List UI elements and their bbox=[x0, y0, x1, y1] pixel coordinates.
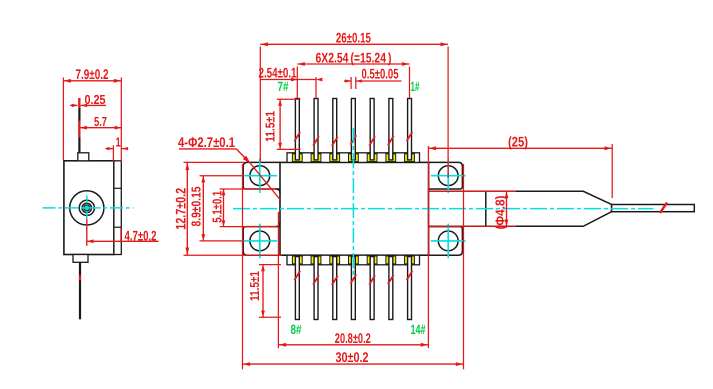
package body (top view) bbox=[280, 162, 429, 255]
top strip gold pad 2 bbox=[311, 154, 321, 162]
fillet at left edge lower bbox=[276, 223, 280, 227]
top pin #4 bbox=[351, 99, 355, 160]
svg-text:6X2.54 (=15.24 ): 6X2.54 (=15.24 ) bbox=[316, 49, 392, 65]
bottom strip gold pad 7 bbox=[405, 256, 415, 264]
bottom strip gold pad 4 bbox=[349, 256, 359, 264]
svg-text:11.5±1: 11.5±1 bbox=[247, 271, 262, 301]
top pin #2 break mark bbox=[388, 136, 394, 145]
top feedthrough strip bbox=[287, 153, 420, 163]
bottom pin #11 bbox=[351, 257, 355, 320]
package body (side view) bbox=[64, 161, 114, 255]
bottom pin red tick (side view) bbox=[79, 275, 81, 280]
svg-text:8.9±0.15: 8.9±0.15 bbox=[189, 187, 204, 227]
dim 7.9±0.2 line bbox=[63, 80, 121, 82]
dim 4.7±0.2 ext 2 bbox=[120, 229, 122, 242]
main vertical centerline bbox=[352, 128, 354, 278]
top pin #6 break mark bbox=[313, 136, 319, 145]
svg-text:4-Φ2.7±0.1: 4-Φ2.7±0.1 bbox=[178, 134, 235, 150]
dim 12.7±0.2: line + ticks bbox=[186, 162, 188, 255]
svg-text:0.5±0.05: 0.5±0.05 bbox=[362, 65, 399, 81]
dim 4.7±0.2 line bbox=[87, 240, 159, 242]
dim 0.5±0.05 lines bbox=[344, 80, 351, 82]
dim 2.54±0.1 line bbox=[260, 79, 316, 81]
top pin #2 bbox=[389, 99, 393, 160]
fiber core (cyan) bbox=[84, 205, 90, 211]
svg-text:26±0.15: 26±0.15 bbox=[336, 30, 371, 46]
mounting hole top-right bbox=[438, 166, 458, 186]
bottom pin #8 bbox=[295, 257, 299, 320]
svg-text:5.7: 5.7 bbox=[94, 114, 107, 129]
svg-text:11.5±1: 11.5±1 bbox=[263, 111, 278, 142]
fiber snout bbox=[429, 191, 612, 226]
dim 26 ext right bbox=[447, 47, 449, 179]
fiber break mark bbox=[660, 203, 667, 214]
svg-text:5.1±0.1: 5.1±0.1 bbox=[210, 191, 225, 223]
bottom pin #10 bbox=[333, 257, 337, 320]
bottom pin #14 break mark bbox=[407, 271, 413, 280]
bottom pin (side view) bbox=[79, 262, 81, 319]
top pin (side view) bbox=[78, 98, 80, 153]
svg-text:30±0.2: 30±0.2 bbox=[336, 349, 369, 365]
flange gap line upper bbox=[114, 187, 121, 189]
dim (25) ext right bbox=[611, 144, 613, 198]
bottom pin #10 break mark bbox=[332, 276, 338, 285]
hole crosshair top-right bbox=[431, 175, 466, 177]
top pin #6 bbox=[314, 99, 318, 160]
ferrule inner circle bbox=[82, 203, 91, 212]
dim 5.7 line bbox=[80, 127, 121, 129]
dim 0.25 ticks bbox=[70, 104, 77, 106]
dim (Φ4.8): line + ext bbox=[429, 190, 516, 192]
bottom pin #13 break mark bbox=[388, 275, 394, 284]
svg-text:14#: 14# bbox=[411, 322, 426, 337]
dim 20.8±0.2 line bbox=[278, 344, 428, 346]
mounting hole top-left bbox=[250, 166, 270, 186]
dim 4.7±0.2 ext (vertical from ferrule center) bbox=[86, 219, 88, 246]
bottom feedthrough strip bbox=[287, 255, 420, 265]
top pin #7 bbox=[295, 99, 299, 160]
ferrule middle circle bbox=[79, 200, 94, 215]
fiber pigtail bbox=[612, 205, 695, 212]
bottom pin #9 break mark bbox=[313, 275, 319, 284]
bottom pin #9 bbox=[314, 257, 318, 320]
svg-text:20.8±0.2: 20.8±0.2 bbox=[335, 330, 371, 346]
top strip gold pad 7 bbox=[405, 154, 415, 162]
pin red overlay top bbox=[78, 98, 80, 108]
svg-text:1: 1 bbox=[116, 134, 121, 149]
dim 26 ext left bbox=[259, 47, 261, 162]
bottom pin #12 break mark bbox=[369, 275, 375, 284]
bottom strip gold pad 1 bbox=[292, 256, 302, 264]
bottom pin #11 break mark bbox=[351, 274, 357, 283]
dim (25) line bbox=[428, 147, 612, 149]
bottom strip gold pad 5 bbox=[367, 256, 377, 264]
horizontal centerline (side view) bbox=[43, 207, 134, 209]
bottom pin stub (side view) bbox=[73, 255, 88, 263]
snout divider line bbox=[485, 191, 487, 226]
bottom strip gold pad 6 bbox=[386, 256, 396, 264]
bottom pin #8 break mark bbox=[294, 271, 300, 280]
svg-text:7#: 7# bbox=[278, 79, 289, 94]
svg-text:(25): (25) bbox=[508, 134, 528, 150]
top strip gold pad 3 bbox=[330, 154, 340, 162]
hole crosshair bottom-right bbox=[431, 240, 466, 242]
bottom pin #12 bbox=[370, 257, 374, 320]
top pin #5 break mark bbox=[332, 137, 338, 146]
svg-text:4.7±0.2: 4.7±0.2 bbox=[125, 228, 157, 244]
dim 7.9±0.2 ext lines bbox=[62, 78, 64, 161]
hole crosshair bottom-left bbox=[243, 240, 278, 242]
dim 5.1±0.1: line + ticks bbox=[223, 189, 225, 227]
svg-text:(Φ4.8): (Φ4.8) bbox=[493, 196, 508, 230]
mounting hole bottom-right bbox=[438, 231, 458, 251]
fillet at left edge upper bbox=[276, 189, 280, 193]
svg-text:0.25: 0.25 bbox=[85, 92, 106, 107]
dim 1 ticks bbox=[105, 148, 112, 150]
dim 2.54±0.1 ext bbox=[315, 77, 317, 98]
top strip gold pad 5 bbox=[367, 154, 377, 162]
top pin #3 bbox=[370, 99, 374, 160]
dim 6X2.54 line bbox=[297, 63, 409, 65]
top pin #7 break mark bbox=[294, 132, 300, 141]
bottom pin #13 bbox=[389, 257, 393, 320]
svg-text:12.7±0.2: 12.7±0.2 bbox=[173, 188, 189, 230]
dim 6X2.54 ext lines bbox=[296, 67, 298, 99]
dim 26±0.15 line bbox=[260, 43, 448, 45]
main horizontal centerline bbox=[233, 208, 654, 210]
mounting ear bottom-left bbox=[243, 227, 280, 256]
top strip gold pad 1 bbox=[292, 154, 302, 162]
mounting ear top-right bbox=[429, 162, 463, 189]
top pin #1 break mark bbox=[407, 132, 413, 141]
top strip gold pad 6 bbox=[386, 154, 396, 162]
bottom pin #14 bbox=[408, 257, 412, 320]
dim 30±0.2 line bbox=[243, 363, 464, 365]
top pin #5 bbox=[333, 99, 337, 160]
top pin #1 bbox=[408, 99, 412, 160]
svg-text:1#: 1# bbox=[411, 79, 420, 94]
svg-text:8#: 8# bbox=[291, 322, 302, 337]
mounting ear bottom-right bbox=[429, 227, 463, 256]
flange gap line lower bbox=[114, 226, 121, 228]
dim 11.5±1 top: line + ticks bbox=[279, 99, 281, 149]
top pin stub (side view) bbox=[78, 153, 89, 161]
ferrule outer circle bbox=[70, 191, 104, 225]
mounting hole bottom-left bbox=[250, 231, 270, 251]
dim 30±0.2 ext lines bbox=[242, 164, 244, 369]
top pin #4 break mark bbox=[351, 135, 357, 144]
dim (25)/20.8 shared ext right of body bbox=[427, 146, 429, 348]
top pin #3 break mark bbox=[369, 136, 375, 145]
flange edge strip (side view, 1mm thick) bbox=[114, 161, 121, 255]
dim 20.8±0.2 ext left bbox=[277, 212, 279, 348]
hole crosshair top-left bbox=[243, 175, 278, 177]
vertical centerline (side view ferrule) bbox=[86, 195, 88, 220]
dim 8.9±0.15: line + ticks bbox=[202, 176, 204, 241]
bottom strip gold pad 2 bbox=[311, 256, 321, 264]
top strip gold pad 4 bbox=[349, 154, 359, 162]
dim 11.5±1 bottom: line + ticks bbox=[262, 265, 264, 318]
bottom strip gold pad 3 bbox=[330, 256, 340, 264]
mounting ear top-left bbox=[243, 162, 280, 189]
svg-text:7.9±0.2: 7.9±0.2 bbox=[76, 66, 109, 82]
